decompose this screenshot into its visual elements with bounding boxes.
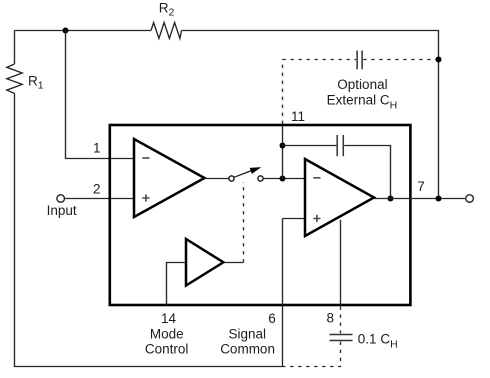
wire: A2 noninverting input lead: [283, 218, 306, 220]
svg-text:11: 11: [291, 109, 305, 124]
svg-text:Signal: Signal: [229, 327, 267, 342]
svg-text:External CH: External CH: [327, 93, 398, 112]
svg-text:R2: R2: [159, 1, 175, 19]
switch lever arrowhead: [250, 167, 262, 174]
switch lever: [234, 168, 258, 177]
wire: top rail right segment and right rail down to output node: [182, 31, 439, 199]
svg-text:7: 7: [417, 179, 425, 194]
resistor R2: [151, 23, 182, 39]
junction dot: feedback node on top rail: [63, 28, 69, 34]
junction dot: A2 output node inside box: [388, 196, 394, 202]
wire: dashed optional CH right segment: [363, 59, 438, 61]
buffer A3 mode-control driver: [186, 239, 223, 286]
capacitor 0.1 CH: [330, 335, 353, 341]
svg-text:Common: Common: [220, 342, 275, 357]
wire: left rail below R1 down to bottom-left corner and bottom rail to pin 6 riser: [15, 93, 283, 366]
svg-text:6: 6: [268, 311, 276, 326]
wire: switch throw to A2 inverting input: [263, 178, 305, 180]
wire: pin 2 input wire: [65, 198, 134, 200]
terminal: output: [466, 195, 474, 203]
IC package box: [110, 125, 411, 305]
wire: pin 8 dashed lead below box: [340, 307, 342, 334]
svg-text:14: 14: [161, 311, 177, 326]
wire: internal CH right lead down to A2 output: [344, 146, 390, 199]
wire: top rail left segment: [15, 30, 152, 32]
switch throw contact: [258, 176, 263, 181]
svg-text:R1: R1: [28, 74, 44, 92]
wire: dashed optional CH left segment: [283, 59, 357, 61]
wire: left rail top segment down to R1: [14, 31, 16, 65]
wire: A1 output to switch pole: [205, 178, 229, 180]
junction dot: node at A2 inverting input (pin 11 net): [280, 176, 286, 182]
svg-text:Input: Input: [47, 203, 77, 218]
wire: pin 6 riser down to bottom rail: [282, 219, 284, 367]
op-amp A1: [134, 139, 205, 217]
op-amp A1 inverting input mark: [142, 157, 149, 159]
op-amp A1 noninverting input mark: [142, 194, 149, 201]
wire: A2 output to output terminal: [374, 198, 466, 200]
junction dot: optional CH to right rail: [436, 57, 442, 63]
wire: pin 11 vertical inside box: [282, 126, 284, 179]
terminal: input: [57, 195, 65, 203]
junction dot: output node at right rail: [436, 196, 442, 202]
wire: pin 14 lead up to buffer input: [167, 263, 187, 306]
svg-text:2: 2: [93, 182, 101, 197]
svg-text:Optional: Optional: [337, 77, 387, 92]
capacitor optional external CH: [357, 51, 362, 70]
svg-text:1: 1: [93, 141, 101, 156]
svg-text:Control: Control: [145, 342, 189, 357]
wire: feedback wire from top node down to pin 1: [66, 31, 135, 159]
svg-text:0.1 CH: 0.1 CH: [358, 332, 398, 351]
wire: dashed switch control line: [243, 182, 245, 263]
junction dot: internal CH node: [280, 143, 286, 149]
op-amp A2 inverting input mark: [313, 177, 320, 179]
wire: pin 11 dashed riser above box: [282, 60, 284, 125]
wire: pin 8 lead inside box: [340, 220, 342, 305]
svg-text:Mode: Mode: [150, 327, 184, 342]
capacitor internal CH: [337, 135, 343, 156]
wire: internal CH left lead: [283, 145, 337, 147]
op-amp A2 noninverting input mark: [313, 215, 320, 222]
svg-text:8: 8: [327, 311, 335, 326]
wire: 0.1 CH dashed lead to bottom rail and across to pin 6 riser: [283, 342, 341, 367]
op-amp A2: [305, 159, 374, 236]
switch pole contact: [229, 176, 234, 181]
wire: buffer output: [223, 262, 243, 264]
resistor R1: [7, 64, 22, 93]
